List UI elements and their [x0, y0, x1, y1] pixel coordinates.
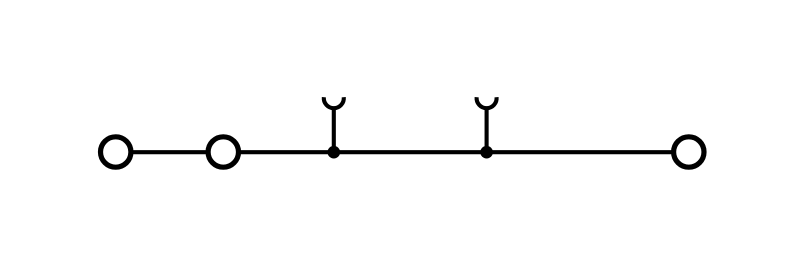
tap connector 2 (socket fork symbol)	[477, 97, 497, 108]
wire (vertical stem of tap 2)	[485, 108, 489, 153]
junction dot 2	[480, 146, 493, 159]
terminal circle 2 (feed-through connection point)	[208, 137, 238, 167]
tap connector 1 (socket fork symbol)	[324, 97, 344, 108]
terminal circle 3 (right connection point)	[674, 137, 704, 167]
wire segment terminal 1 to terminal 2	[133, 150, 207, 154]
wire (vertical stem of tap 1)	[332, 108, 336, 153]
wire segment terminal 2 to terminal 3 (main bus)	[241, 150, 672, 154]
junction dot 1	[328, 146, 341, 159]
terminal circle 1 (left connection point)	[101, 137, 131, 167]
